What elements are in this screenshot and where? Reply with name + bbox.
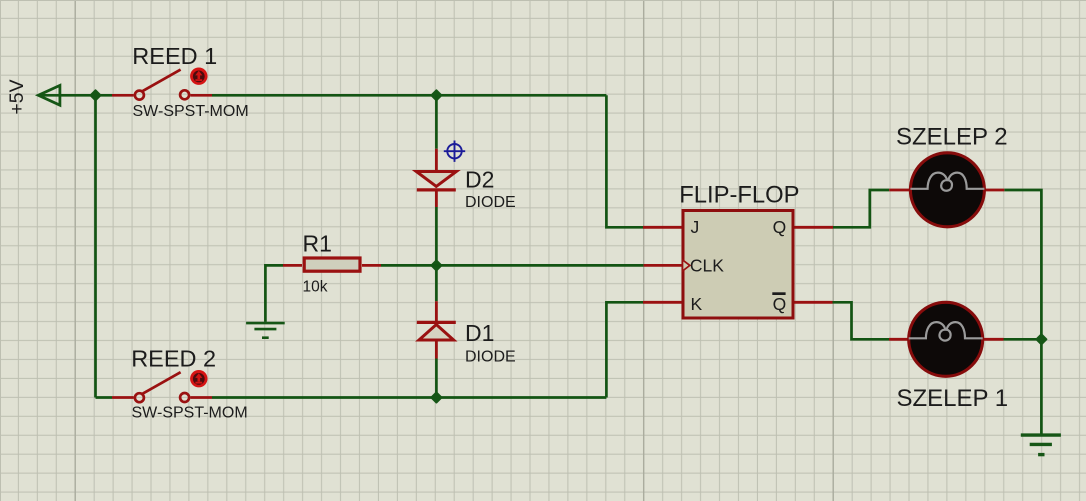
node junction D2 branch (431, 90, 441, 100)
svg-text:J: J (691, 217, 700, 237)
pin Q (795, 226, 834, 229)
wire R1 right to CLK (381, 264, 644, 267)
switch SW1 REED 1 (112, 70, 212, 100)
node junction lamp1 right (1036, 334, 1046, 344)
pin Qbar (795, 301, 833, 304)
wire lamp2 right down (1004, 190, 1041, 434)
wire diode branch verticals (435, 95, 438, 397)
svg-text:10k: 10k (303, 279, 328, 296)
svg-text:K: K (691, 294, 703, 314)
svg-text:D2: D2 (465, 167, 494, 193)
wire Qbar to lamp1 (833, 302, 890, 339)
switch SW1 actuator button (190, 68, 207, 85)
wire R1 left to ground corner (265, 265, 283, 322)
svg-text:Q: Q (773, 217, 787, 237)
switch SW2 REED 2 (112, 372, 212, 402)
lamp SZELEP 2 (889, 153, 1004, 227)
wire REED2 output (212, 396, 606, 399)
pin CLK (644, 264, 682, 267)
wire left vertical bus (94, 95, 97, 397)
wire lamp1 right (1004, 338, 1042, 341)
switch SW2 actuator button (190, 370, 207, 387)
power +5V symbol (6, 79, 60, 114)
svg-text:REED 2: REED 2 (131, 345, 216, 371)
selection origin crosshair (444, 141, 465, 162)
wire Q to lamp2 (833, 190, 889, 227)
svg-text:Q: Q (773, 294, 787, 314)
wire +5V feed (60, 94, 112, 97)
diode D2 (416, 149, 456, 207)
node junction REED2 row (431, 393, 441, 403)
svg-text:SW-SPST-MOM: SW-SPST-MOM (132, 405, 248, 422)
pin K (643, 301, 682, 304)
svg-text:SZELEP 1: SZELEP 1 (897, 385, 1009, 412)
svg-text:FLIP-FLOP: FLIP-FLOP (679, 181, 799, 208)
svg-text:CLK: CLK (690, 256, 724, 276)
ground right (1021, 435, 1061, 455)
wire bend down to J pin (606, 95, 643, 227)
svg-text:+5V: +5V (6, 79, 28, 114)
node junction CLK row (431, 260, 441, 270)
diode D1 (417, 301, 456, 358)
svg-text:DIODE: DIODE (465, 348, 516, 365)
svg-text:DIODE: DIODE (465, 194, 516, 211)
svg-text:D1: D1 (465, 320, 494, 346)
svg-text:SZELEP 2: SZELEP 2 (896, 123, 1008, 150)
pin J (643, 226, 682, 229)
ground left (246, 323, 285, 338)
wire REED2 feed (96, 396, 113, 399)
wire bend up to K pin (606, 302, 643, 397)
clock input triangle (683, 260, 690, 271)
resistor R1 (283, 258, 381, 271)
svg-text:REED 1: REED 1 (132, 43, 217, 69)
svg-text:R1: R1 (303, 230, 332, 256)
svg-text:SW-SPST-MOM: SW-SPST-MOM (133, 103, 249, 120)
flip-flop U1 (683, 211, 793, 319)
node junction +5V (91, 90, 101, 100)
lamp SZELEP 1 (889, 302, 1004, 376)
wire REED1 output to bend (212, 94, 606, 97)
